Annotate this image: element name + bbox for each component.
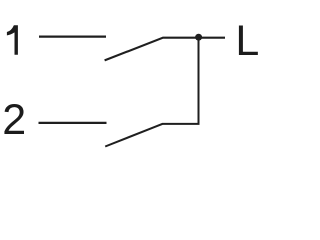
- svg-text:2: 2: [2, 96, 26, 144]
- svg-text:L: L: [235, 17, 259, 65]
